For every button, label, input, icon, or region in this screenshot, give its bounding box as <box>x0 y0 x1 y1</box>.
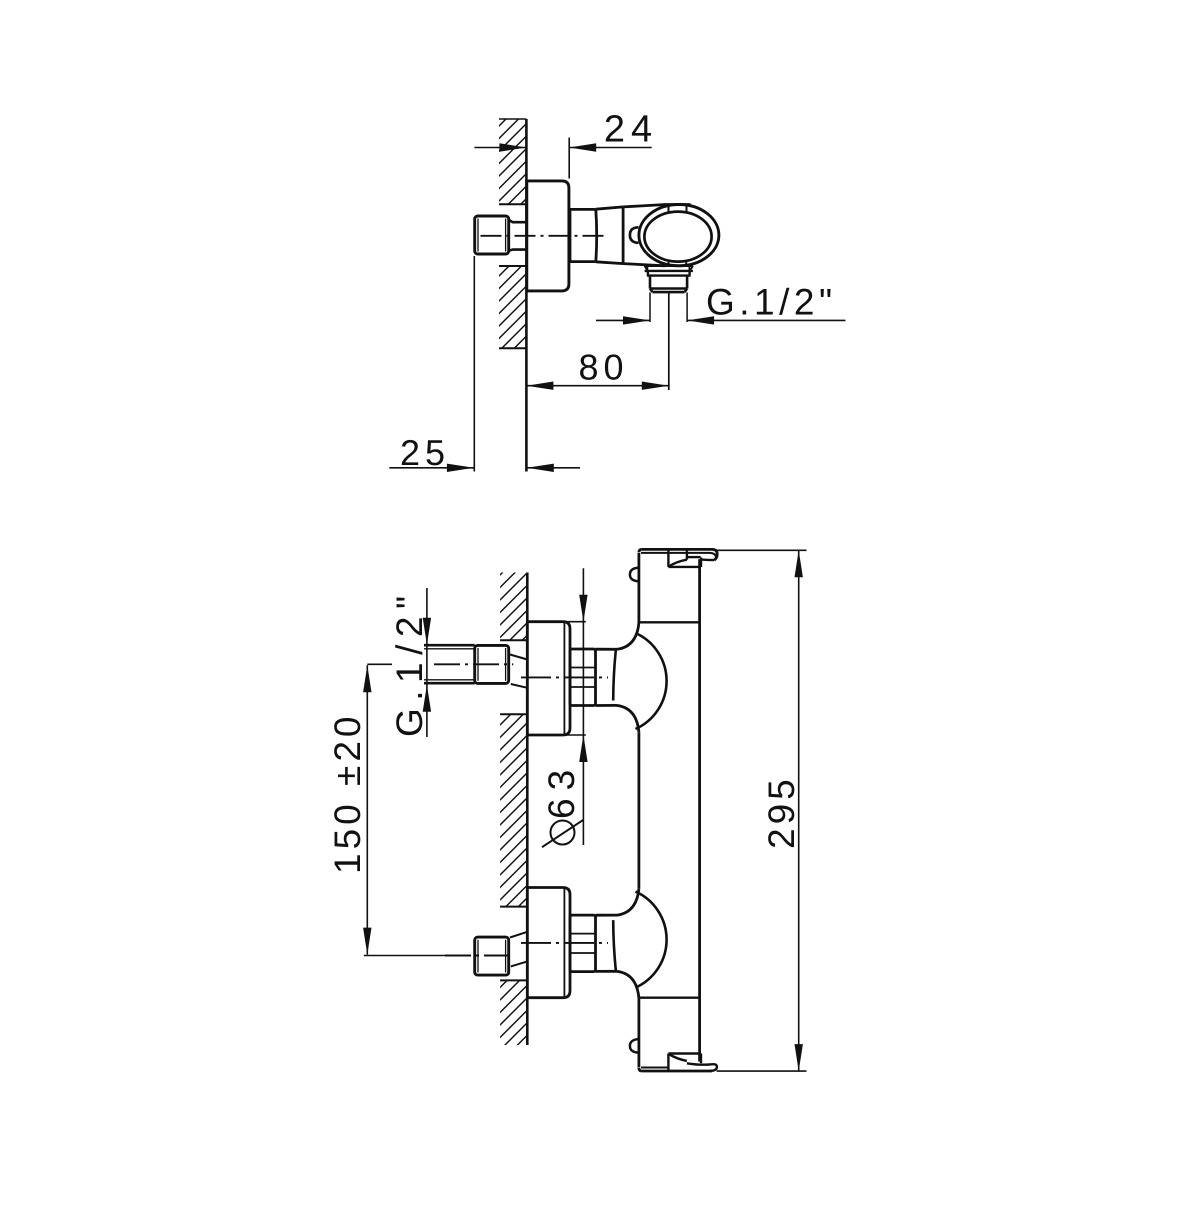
outlet pipe extension line right <box>686 293 688 323</box>
dia63 symbol circle <box>551 821 575 845</box>
lower square chamfer right <box>505 940 507 973</box>
handle top tab line <box>664 203 691 206</box>
upper cone right edge <box>613 650 616 700</box>
bar section line upper <box>639 621 700 623</box>
upper escutcheon bottom edge extension <box>527 734 586 736</box>
wall hatch band upper <box>499 119 526 204</box>
outlet collar B <box>647 271 691 276</box>
upper inlet taper bottom <box>511 684 528 688</box>
outlet collar A right tick <box>688 266 690 271</box>
escutcheon flange (side view) <box>527 181 569 291</box>
outlet collar A right bevel <box>690 266 693 271</box>
upper inlet pipe <box>424 645 475 683</box>
lower escutcheon rim line <box>563 888 565 997</box>
wall hatch band 3 <box>500 980 527 1045</box>
wall face line <box>525 119 528 472</box>
dimension dia63 extension line <box>582 568 584 845</box>
bottom side screw bump <box>630 1039 639 1053</box>
union neck bottom <box>509 250 527 251</box>
dimension 80 arrow left <box>526 382 553 390</box>
lower inlet taper top <box>510 932 527 938</box>
upper inlet pipe thread lines <box>424 649 475 680</box>
wall cut edge at y714 <box>500 713 527 715</box>
bar section line lower <box>639 997 700 999</box>
lower escutcheon front view <box>527 888 570 998</box>
upper escutcheon rim line <box>563 623 565 735</box>
dimension 24 arrow left <box>499 143 526 151</box>
square union nut (side view) <box>475 216 509 254</box>
dimension 150 arrow up <box>363 665 371 692</box>
bottom cap step vertical right <box>700 1053 702 1063</box>
wall hatch band 1 <box>500 573 527 641</box>
dimension G.1/2 top arrow left <box>623 316 650 324</box>
handle ring inner ellipse <box>644 212 711 262</box>
top cap vertical left <box>667 549 669 567</box>
top cap step line <box>687 556 701 558</box>
dimension 24 arrow right <box>569 143 596 151</box>
top cap rim line <box>641 553 716 557</box>
upper housing fillet top <box>617 623 639 650</box>
lower inlet centerline dash-dot <box>445 955 513 957</box>
lower inlet square nut <box>475 937 509 975</box>
lower inlet centerline solid part <box>364 955 445 957</box>
dimension 150 arrow down <box>363 928 371 955</box>
svg-text:24: 24 <box>604 109 658 151</box>
dimension 25 line right tail <box>527 467 580 469</box>
outlet pipe centerline <box>668 293 670 391</box>
upper escutcheon front view <box>527 622 570 735</box>
upper housing fillet bottom <box>617 705 639 732</box>
svg-text:25: 25 <box>400 432 450 473</box>
dimension 24 extension line <box>568 138 570 179</box>
handle top tab tick right <box>686 205 688 212</box>
dimension 295 line <box>798 550 800 1071</box>
mixer bar left edge lower <box>638 998 641 1067</box>
lower cone top edge <box>596 914 618 917</box>
upper hex nut flat line 1 <box>570 667 596 669</box>
upper escutcheon top edge extension <box>527 621 586 623</box>
outlet collar A left bevel <box>645 266 648 271</box>
wall cut edge at y906 <box>500 906 527 908</box>
top cap step vertical left <box>686 549 688 559</box>
upper valve centerline <box>521 676 608 678</box>
union nut chamfer line right <box>505 219 507 252</box>
outlet collar A bottom edge <box>645 270 693 272</box>
mixer bar left edge upper <box>638 553 641 623</box>
union neck top <box>509 220 527 223</box>
union nut chamfer line left <box>477 219 479 252</box>
dimension 24 line left tail <box>474 147 526 149</box>
handle bottom tab tick right <box>685 261 687 267</box>
dimension G.1/2 front arrow up <box>423 685 431 712</box>
bottom cap bottom edge <box>642 1070 712 1073</box>
dimension G.1/2 front extension line <box>426 588 428 737</box>
wall cut top edge <box>499 118 526 120</box>
outlet threaded pipe <box>650 276 687 293</box>
upper square chamfer right <box>505 648 507 681</box>
upper inlet taper top <box>510 655 527 660</box>
lower square chamfer left <box>477 940 479 973</box>
bottom cap skirt curve <box>668 1054 687 1061</box>
wall cut edge at y980 <box>500 979 527 981</box>
dimension G.1/2 top line right <box>687 319 845 321</box>
svg-text:295: 295 <box>761 775 802 849</box>
dimension 150 line <box>366 665 368 954</box>
lower cone right edge <box>613 920 616 970</box>
top cap bottom line <box>668 566 701 568</box>
lower housing fillet bottom <box>617 971 639 998</box>
top side screw bump <box>630 568 639 582</box>
mixer bar left edge middle <box>638 732 641 888</box>
dimension G.1/2 top line left <box>596 319 650 321</box>
valve body block B <box>596 207 623 264</box>
dimension 24 line right tail <box>569 147 652 149</box>
lower hex nut flat line 1 <box>570 933 596 935</box>
dimension 25 arrow right <box>527 464 554 472</box>
lower valve centerline <box>521 942 608 944</box>
upper inlet centerline dash-dot <box>434 663 513 665</box>
bottom cap top line <box>668 1052 701 1054</box>
upper hex nut flat line 2 <box>570 686 596 688</box>
dia63 symbol slash <box>542 820 583 847</box>
dimension 80 line <box>526 385 668 387</box>
valve adapter block A <box>570 209 597 261</box>
outlet pipe extension line left <box>649 293 651 323</box>
wall face line front view <box>526 573 529 1046</box>
valve body top edge to handle <box>623 205 663 207</box>
svg-text:80: 80 <box>578 347 628 388</box>
lower housing fillet top <box>617 888 639 915</box>
wall hatch band lower <box>499 266 526 348</box>
bottom cap rim line <box>641 1067 668 1069</box>
dimension 25 arrow left <box>447 464 474 472</box>
dimension 295 arrow up <box>795 550 803 577</box>
handle bottom tab tick left <box>668 261 670 266</box>
wall cut edge at y204 <box>499 203 526 205</box>
upper inlet square nut <box>475 645 509 683</box>
dimension 295 extension bottom <box>717 1070 807 1072</box>
svg-text:G.1/2": G.1/2" <box>389 588 430 737</box>
bottom cap lever shoe <box>687 1063 717 1071</box>
top cap top edge <box>642 549 717 560</box>
svg-text:63: 63 <box>541 762 582 819</box>
dimension dia63 arrow down <box>579 595 587 622</box>
dimension dia63 arrow up <box>579 735 587 762</box>
small knob on valve left <box>630 227 639 243</box>
top cap lever underside <box>702 558 715 561</box>
handle ring outer ellipse <box>639 205 719 266</box>
top cap corner <box>639 549 642 552</box>
outlet collar A left tick <box>647 266 649 271</box>
upper cone bottom edge <box>596 704 618 707</box>
upper cone top edge <box>596 648 618 651</box>
svg-text:150 ±20: 150 ±20 <box>327 713 368 874</box>
top cap step vertical right <box>700 557 702 567</box>
dimension G.1/2 top arrow right <box>687 316 714 324</box>
dimension 295 extension top <box>717 549 807 551</box>
svg-text:G.1/2": G.1/2" <box>706 282 837 323</box>
upper square chamfer left <box>477 648 479 681</box>
upper housing dome arc <box>636 633 667 729</box>
dimension 80 arrow right <box>642 382 669 390</box>
lower hex nut flat line 2 <box>570 952 596 954</box>
dimension 25 line left tail <box>389 467 474 469</box>
centerline of union (dash-dot) <box>481 235 609 237</box>
dimension 25 extension line left <box>473 256 475 472</box>
wall hatch band 2 <box>500 714 527 907</box>
lower hex nut <box>570 915 596 972</box>
wall cut edge at y266 <box>499 265 526 267</box>
lower inlet taper bottom <box>511 961 528 966</box>
upper inlet centerline solid part <box>367 663 392 665</box>
wall cut edge at y348 <box>499 347 526 349</box>
bottom cap vertical left <box>667 1054 669 1072</box>
wall cut edge at y640 <box>500 639 527 641</box>
top cap skirt curve <box>668 560 687 567</box>
upper hex nut <box>570 649 596 706</box>
bottom cap corner <box>639 1068 642 1071</box>
mixer bar right edge <box>698 559 701 1061</box>
lower cone bottom edge <box>596 970 618 973</box>
dimension 295 arrow down <box>795 1044 803 1071</box>
dimension G.1/2 front arrow down <box>423 618 431 645</box>
valve body bottom edge to handle <box>623 264 665 266</box>
lower housing dome arc <box>636 892 667 988</box>
outlet collar A top edge <box>645 264 693 267</box>
handle top tab tick left <box>668 205 670 213</box>
